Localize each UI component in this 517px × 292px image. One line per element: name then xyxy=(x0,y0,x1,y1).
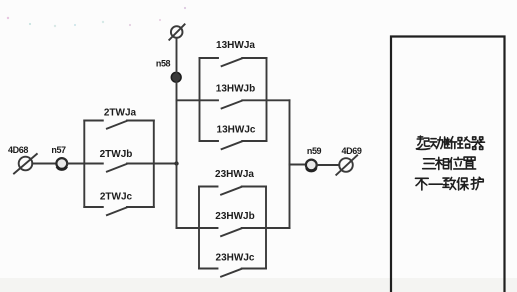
text 三相位置 xyxy=(423,157,476,169)
svg-text:n59: n59 xyxy=(307,146,322,156)
contact 13HWJa xyxy=(200,58,267,66)
protection function box xyxy=(391,37,505,292)
label n57 xyxy=(51,145,66,155)
wire 23HWJ left bus xyxy=(198,187,200,269)
label 13HWJc xyxy=(217,125,256,136)
label 23HWJa xyxy=(215,169,254,180)
wire n57 to 2TWJ group xyxy=(67,163,84,165)
label 2TWJb xyxy=(100,149,133,160)
contact 2TWJa xyxy=(84,121,154,129)
contact 13HWJb xyxy=(177,100,290,108)
label n59 xyxy=(307,146,322,156)
contact 23HWJc xyxy=(199,269,266,277)
contact 23HWJb xyxy=(177,228,290,236)
contact 2TWJb xyxy=(84,164,154,172)
svg-text:2TWJa: 2TWJa xyxy=(104,108,137,119)
text 起动断路器 xyxy=(416,136,484,149)
svg-text:23HWJa: 23HWJa xyxy=(215,169,254,180)
label 13HWJb xyxy=(216,84,255,95)
wire 23HWJ right bus xyxy=(265,187,267,269)
label n58 xyxy=(156,59,171,69)
label 2TWJc xyxy=(100,192,133,203)
svg-text:23HWJb: 23HWJb xyxy=(215,211,254,222)
label 13HWJa xyxy=(216,40,255,51)
terminal 4D69 xyxy=(336,155,357,175)
svg-text:2TWJb: 2TWJb xyxy=(100,149,133,160)
connector n59 xyxy=(306,160,317,171)
wire 2TWJ to node n58 xyxy=(154,163,177,165)
svg-text:23HWJc: 23HWJc xyxy=(216,253,255,264)
connector n57 xyxy=(56,158,67,169)
contact 2TWJc xyxy=(84,207,154,215)
wire 13HWJ right bus xyxy=(266,58,268,141)
label 23HWJb xyxy=(215,211,254,222)
wire node to n59 xyxy=(290,164,307,166)
terminal 4D68 xyxy=(14,154,37,174)
label 23HWJc xyxy=(216,253,255,264)
svg-text:13HWJc: 13HWJc xyxy=(217,125,256,136)
wire n59 to 4D69 xyxy=(317,164,339,166)
connector n58 xyxy=(171,72,181,82)
svg-text:4D68: 4D68 xyxy=(8,145,28,155)
svg-text:2TWJc: 2TWJc xyxy=(100,192,133,203)
svg-text:13HWJa: 13HWJa xyxy=(216,40,255,51)
contact 13HWJc xyxy=(200,141,267,149)
text 不一致保护 xyxy=(415,177,483,190)
label 4D68 xyxy=(8,145,28,155)
wire n58 vertical bus xyxy=(176,38,178,228)
svg-text:13HWJb: 13HWJb xyxy=(216,84,255,95)
wire 2TWJ left bus xyxy=(83,121,85,208)
wire 2TWJ right bus xyxy=(153,121,155,208)
junction node main wire x n58 bus xyxy=(174,161,178,165)
contact 23HWJa xyxy=(199,187,266,195)
wire right bus 13HWJb to 23HWJb xyxy=(289,100,291,228)
terminal above n58 xyxy=(169,24,184,39)
svg-text:n58: n58 xyxy=(156,59,171,69)
wire 13HWJ left bus xyxy=(199,58,201,141)
label 2TWJa xyxy=(104,108,137,119)
wire 4D68 to n57 xyxy=(32,163,56,165)
svg-text:n57: n57 xyxy=(51,145,66,155)
svg-text:4D69: 4D69 xyxy=(342,146,362,156)
label 4D69 xyxy=(342,146,362,156)
